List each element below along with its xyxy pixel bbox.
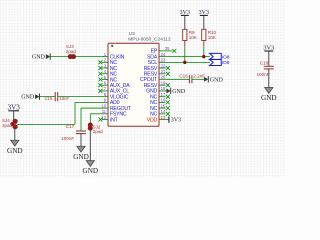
wire C16 to GND <box>192 78 204 80</box>
svg-text:GND: GND <box>32 55 46 61</box>
svg-text:18: 18 <box>161 86 166 91</box>
no-connect cross pin 6 <box>98 83 102 87</box>
capacitor C18 <box>264 66 274 69</box>
pin-1 marker dot <box>111 45 113 47</box>
ground (C17) <box>73 146 89 161</box>
pin 24 SDA stub <box>159 56 165 58</box>
ground flag (GND pin) <box>167 88 186 95</box>
pin 23 SCL stub <box>159 61 165 63</box>
capacitor C16 <box>189 75 192 83</box>
svg-text:100nF: 100nF <box>61 136 74 141</box>
wire R10 to SDA <box>203 46 205 56</box>
svg-text:GND: GND <box>7 147 23 155</box>
svg-text:10: 10 <box>101 103 106 108</box>
no-connect cross pin 7 <box>98 89 102 93</box>
svg-text:2.2nF: 2.2nF <box>193 73 205 78</box>
lead R9 bottom <box>184 41 186 47</box>
svg-text:24: 24 <box>161 52 166 57</box>
pin 11 FSYNC stub <box>102 113 108 115</box>
pin 3 NC stub <box>102 67 108 69</box>
pin 15 NC stub <box>159 107 165 109</box>
svg-text:C18: C18 <box>260 60 269 65</box>
wire REGOUT riser <box>80 108 82 131</box>
wire 3V3 to SJ4 <box>13 111 15 120</box>
wire SJ2 down <box>89 130 91 160</box>
wire GND to CLKIN <box>50 56 102 58</box>
pin 18 GND stub <box>159 90 165 92</box>
capacitor C17 <box>76 131 86 134</box>
no-connect cross pin 3 <box>98 66 102 70</box>
junction SCL/R9 <box>183 61 186 64</box>
pin 25 EP stub <box>159 50 173 52</box>
wire SJ4 to riser <box>17 123 75 125</box>
ground (SJ2) <box>83 161 99 176</box>
ground flag (CLKIN) <box>32 53 50 60</box>
wire FSYNC <box>90 113 102 115</box>
svg-text:GND: GND <box>172 89 186 95</box>
wire SJ4 down <box>14 129 16 141</box>
no-connect cross pin 2 <box>98 60 102 64</box>
solder jumper SJ4 (3pad) <box>10 119 17 130</box>
junction SDA/R10 <box>202 55 205 58</box>
svg-text:GND: GND <box>261 94 277 102</box>
pin 21 RESV stub <box>159 73 165 75</box>
wire C17 to GND <box>80 134 82 146</box>
svg-text:19: 19 <box>161 81 166 86</box>
svg-text:IO8: IO8 <box>222 54 230 60</box>
svg-text:R10: R10 <box>208 30 217 35</box>
no-connect cross pin 17 <box>166 95 170 99</box>
no-connect cross pin 19 <box>166 83 170 87</box>
pin 5 NC stub <box>102 78 108 80</box>
pin 2 NC stub <box>102 61 108 63</box>
svg-text:VDD: VDD <box>147 117 158 123</box>
pin 9 AD0 stub <box>102 101 108 103</box>
svg-text:GND: GND <box>21 95 35 101</box>
no-connect cross pin 25 <box>172 49 176 53</box>
svg-text:INT: INT <box>110 117 119 123</box>
wire CPOUT to C16 <box>165 78 189 80</box>
solder jumper SJ3 <box>68 54 76 59</box>
pin 19 RESV stub <box>159 84 165 86</box>
pin 10 REGOUT stub <box>102 107 108 109</box>
svg-text:C17: C17 <box>66 124 75 129</box>
no-connect cross pin 4 <box>98 72 102 76</box>
svg-text:22: 22 <box>161 63 166 68</box>
svg-text:GND: GND <box>210 77 224 83</box>
svg-text:IO9: IO9 <box>222 60 230 66</box>
wire C18 to GND <box>268 69 270 87</box>
port IO8 <box>210 53 222 59</box>
ground (C18) <box>261 88 277 103</box>
power flag 3V3 (VDD) <box>169 116 181 123</box>
wire 3V3 to C18 <box>268 51 270 66</box>
ground (SJ4) <box>7 140 23 155</box>
wire 3V3 to R9 <box>184 15 186 29</box>
pin 6 AUX_DA stub <box>102 84 108 86</box>
svg-text:GND: GND <box>73 153 89 161</box>
power flag 3V3 (C18) <box>263 45 274 52</box>
pin 20 CPOUT stub <box>159 78 165 80</box>
port IO9 <box>210 59 222 65</box>
svg-text:21: 21 <box>161 69 166 74</box>
wire VDD <box>165 119 168 121</box>
pin 14 NC stub <box>159 113 165 115</box>
svg-text:100nF: 100nF <box>256 72 269 77</box>
wire C15 to VLOGIC <box>58 96 102 98</box>
power flag 3V3 (R10) <box>199 10 209 16</box>
wire REGOUT <box>81 107 102 109</box>
svg-text:23: 23 <box>161 58 166 63</box>
svg-text:13: 13 <box>161 115 166 120</box>
wire SDA <box>165 56 210 58</box>
wire FSYNC riser <box>89 114 91 125</box>
svg-text:3V3: 3V3 <box>171 118 181 124</box>
solder jumper SJ2 (2pad) <box>88 123 93 131</box>
svg-text:R9: R9 <box>189 30 195 35</box>
op-amp U1 IC body U3 MPU-6050 <box>108 43 159 126</box>
svg-text:11: 11 <box>102 109 107 114</box>
no-connect cross pin 15 <box>166 106 170 110</box>
svg-text:17: 17 <box>161 92 166 97</box>
power flag 3V3 (SJ4) <box>8 104 21 112</box>
pin 16 NC stub <box>159 101 165 103</box>
svg-text:12: 12 <box>101 115 106 120</box>
pin 22 RESV stub <box>159 67 165 69</box>
svg-text:10K: 10K <box>189 35 198 40</box>
ground flag (C15) <box>21 93 39 100</box>
svg-text:C16: C16 <box>179 73 188 78</box>
pin 1 CLKIN stub <box>102 56 108 58</box>
no-connect cross pin 14 <box>166 112 170 116</box>
wire GND to C15 <box>40 96 56 98</box>
no-connect cross pin 21 <box>166 72 170 76</box>
wire 3V3 to R10 <box>203 15 205 29</box>
wire R9 to SCL <box>184 46 186 62</box>
svg-text:3pad: 3pad <box>2 123 13 128</box>
svg-text:U3: U3 <box>129 31 135 36</box>
no-connect cross pin 22 <box>166 66 170 70</box>
wire GND pin <box>165 90 166 92</box>
capacitor C15 <box>55 92 58 101</box>
wire AD0 <box>75 101 102 103</box>
wire SCL <box>165 61 210 63</box>
ground flag (C16) <box>204 76 223 83</box>
pin 8 VLOGIC stub <box>102 96 108 98</box>
svg-text:C15: C15 <box>45 96 53 101</box>
no-connect cross pin 16 <box>166 100 170 104</box>
lead R10 bottom <box>203 41 205 47</box>
svg-text:MPU-6050_C24112: MPU-6050_C24112 <box>128 36 171 42</box>
svg-text:GND: GND <box>83 167 99 175</box>
pin 4 NC stub <box>102 73 108 75</box>
pin 7 AUX_CL stub <box>102 90 108 92</box>
wire riser AD0 <box>74 102 76 124</box>
resistor R9 <box>183 29 187 40</box>
svg-text:2pad: 2pad <box>66 49 77 54</box>
svg-text:16: 16 <box>161 98 166 103</box>
svg-text:25: 25 <box>165 46 170 51</box>
power flag 3V3 (R9) <box>180 10 190 16</box>
pin 12 INT stub <box>102 119 108 121</box>
svg-text:15: 15 <box>161 103 166 108</box>
pin 13 VDD stub <box>159 119 165 121</box>
no-connect cross pin 12 <box>98 118 102 122</box>
svg-text:14: 14 <box>161 109 166 114</box>
svg-text:10K: 10K <box>208 35 217 40</box>
resistor R10 <box>202 29 206 40</box>
svg-text:20: 20 <box>161 75 166 80</box>
no-connect cross pin 5 <box>98 77 102 81</box>
svg-text:2pad: 2pad <box>93 129 104 134</box>
pin 17 NC stub <box>159 96 165 98</box>
